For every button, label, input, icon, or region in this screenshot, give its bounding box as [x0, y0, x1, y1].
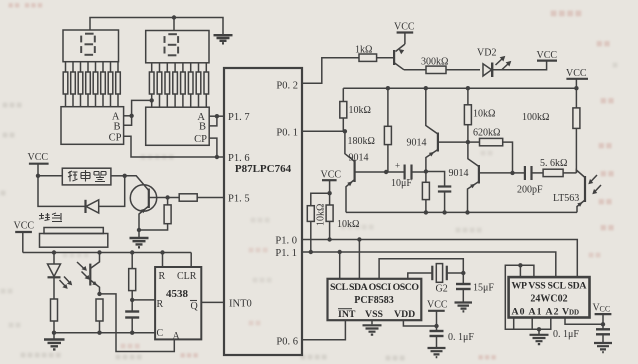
VCC supply of I2C pullups: [321, 170, 342, 194]
svg-text:WP VSS SCL SDA: WP VSS SCL SDA: [512, 281, 587, 292]
wire: U6 WP tied to ground wrap: [519, 265, 521, 277]
node: Q3 base / R7 / C5: [510, 171, 514, 175]
LED VD2: [483, 56, 511, 77]
wire: PT1 emitter to 4538 A input (wraps below): [100, 294, 175, 352]
wire: rail to CLR pin of U4: [190, 253, 192, 268]
capacitor C1 10uF (polarized): [386, 161, 426, 180]
wire: rail to R (top) pin of U4: [162, 253, 164, 268]
wire: relay to Q4 collector node: [111, 175, 125, 177]
svg-text:SCL SDA OSCI OSCO: SCL SDA OSCI OSCO: [330, 282, 419, 293]
svg-text:P1. 7: P1. 7: [228, 112, 250, 123]
wire: U3 pin B tied up to A: [209, 116, 217, 126]
wire: P1.6 net into MCU: [217, 156, 224, 158]
ground under Q4 emitter: [130, 230, 149, 247]
capacitor C8 0.1uF (U5 decoupling): [430, 326, 444, 347]
transistor Q5 (PNP, LED driver): [394, 44, 405, 70]
resistor R7 620kOhm: [468, 138, 513, 173]
node: CP net junction: [215, 155, 219, 159]
wire: Q5 collector to 300k: [404, 69, 426, 71]
node: rail at R14: [130, 250, 134, 254]
svg-text:R: R: [157, 299, 164, 310]
turntable slotted disc (upper plate): [44, 228, 103, 234]
resistor R9 100kOhm (rail to LT563 collector): [573, 88, 580, 173]
svg-text:VCC: VCC: [14, 221, 35, 232]
diode VD1 (flyback, cathode to VCC): [38, 176, 125, 213]
svg-text:9014: 9014: [449, 168, 469, 179]
resistor R2 300kOhm: [426, 66, 446, 73]
svg-text:VSS: VSS: [365, 309, 384, 320]
node: relay / diode / Q4 collector: [123, 174, 127, 178]
node: R14 / C6 / 4538 R pin: [130, 298, 134, 302]
RTC chip U5 PCF8583: [328, 279, 422, 320]
wire: U2 pin A to tie point: [124, 115, 132, 117]
VCC supply of U5: [427, 300, 448, 327]
wire: SDA riser to U5: [358, 240, 360, 279]
node: pullup VCC tie: [327, 191, 331, 195]
wire: P0.1 to node: [302, 130, 345, 132]
svg-text:CLR: CLR: [177, 271, 197, 282]
VCC supply of analog rail: [566, 68, 588, 88]
wire: OSCO riser to crystal left side: [408, 273, 433, 279]
node: ground rail at LED resistor: [52, 331, 56, 335]
node: R15 on SCL line: [309, 250, 313, 254]
node: Q2 base / R4 / R7 / Q3 collector: [466, 140, 470, 144]
wire: P0.2 to 1k resistor: [302, 58, 359, 83]
node: rail at C4: [442, 210, 446, 214]
wire: analog ground rail (Q1 emitter to LT563 emitter): [346, 211, 577, 213]
wire: U6 VDD to VCC node: [565, 318, 603, 325]
capacitor C9 0.1uF (U6 decoupling): [596, 324, 610, 342]
resistor R13 (PT1 emitter load): [96, 299, 103, 333]
wire: top common rail of displays to ground: [90, 18, 223, 35]
wire: OSCI riser and link to crystal right side: [379, 259, 463, 279]
svg-text:B: B: [113, 121, 120, 132]
ground under C7: [455, 303, 473, 312]
node: WP on wrap wire: [518, 263, 522, 267]
svg-text:R: R: [159, 271, 166, 282]
svg-text:10kΩ: 10kΩ: [316, 204, 327, 226]
node: P0.1 / R3 / Q1 collector: [343, 129, 347, 133]
wire: U6 VSS riser joining wrap: [505, 265, 534, 329]
VCC supply of relay branch: [28, 152, 49, 176]
node: rail at phototransistor: [97, 250, 101, 254]
LED VD3 (emitter of opto pair): [48, 253, 73, 300]
svg-text:+: +: [395, 161, 400, 171]
svg-text:P1. 0: P1. 0: [275, 236, 297, 247]
svg-text:VD2: VD2: [477, 48, 496, 59]
node: rail at LED: [52, 250, 56, 254]
svg-text:10kΩ: 10kΩ: [349, 105, 371, 116]
pin label Qbar of U4: [190, 301, 199, 313]
resistor R3 10kOhm (from rail to P0.1 node): [340, 88, 347, 131]
svg-text:VCC: VCC: [321, 170, 342, 181]
svg-text:10μF: 10μF: [391, 178, 412, 189]
svg-text:VDD: VDD: [394, 309, 415, 320]
wire: display DS2 top riser: [173, 18, 175, 31]
svg-text:VCC: VCC: [566, 68, 587, 79]
svg-text:100kΩ: 100kΩ: [522, 112, 549, 123]
resistor R6 (node A to analog ground rail): [422, 172, 429, 213]
wire: U5 INTbar to MCU P0.6: [302, 320, 345, 340]
node: crystal / C7 / OSCI: [461, 271, 465, 275]
svg-text:P1. 5: P1. 5: [228, 194, 250, 205]
svg-text:VCC: VCC: [537, 50, 558, 61]
capacitor C6 (timing): [125, 300, 139, 333]
svg-text:9014: 9014: [349, 153, 369, 164]
wire: P1.0 SDA bus line: [302, 240, 577, 278]
node: ground rail at C6: [130, 331, 134, 335]
node: ground rail at R13: [97, 331, 101, 335]
pin row label INT VSS VDD of U5: [338, 309, 415, 320]
svg-text:CC: CC: [600, 305, 611, 314]
wire: U3 pin CP down to P1.6 net: [209, 138, 217, 157]
svg-text:A: A: [173, 331, 181, 342]
svg-text:DD: DD: [569, 309, 579, 317]
crystal G2: [432, 264, 463, 283]
svg-text:CP: CP: [194, 134, 207, 145]
node: rail at VCC: [574, 86, 578, 90]
resistor R4 10kOhm (rail to Q2 base node): [464, 88, 471, 142]
phototransistor LT563 (IR receiver): [576, 170, 601, 212]
7-segment display DS2: [146, 31, 209, 63]
turntable slotted disc (lower plate): [40, 234, 108, 248]
wire: VCC rail of opto section: [23, 252, 191, 254]
svg-text:180kΩ: 180kΩ: [348, 136, 375, 147]
transistor Q1 9014: [345, 131, 386, 212]
capacitor C7 15uF: [456, 273, 471, 302]
transistor Q3 9014: [468, 142, 513, 212]
wire: U5 VSS to ground: [371, 320, 373, 324]
label text of turntable (Chinese: zhuanpan): [39, 213, 62, 222]
svg-text:15μF: 15μF: [473, 283, 494, 294]
node: Q4 emitter / R11: [137, 228, 141, 232]
VCC supply right of VD2: [537, 50, 558, 61]
node: cascade joins DS2 segment lead: [150, 98, 154, 102]
node: U3 A/B tie on P1.7 wire: [215, 114, 219, 118]
svg-text:4538: 4538: [166, 288, 189, 300]
ground (stepped symbol, top): [214, 35, 233, 43]
svg-text:5. 6kΩ: 5. 6kΩ: [540, 158, 567, 169]
VCC supply of Q5: [394, 22, 415, 45]
shift-register driver U2 (left): [61, 107, 124, 145]
resistor R10 (base series to P1.5): [168, 194, 224, 201]
wire: U4 Qbar to MCU INT0: [201, 301, 224, 303]
svg-text:VCC: VCC: [394, 22, 415, 33]
svg-text:P0. 1: P0. 1: [276, 128, 298, 139]
svg-text:200pF: 200pF: [517, 185, 543, 196]
svg-text:P0. 6: P0. 6: [276, 337, 298, 348]
svg-text:Q: Q: [191, 301, 199, 312]
node: SCL drop to PCF8583: [338, 250, 342, 254]
svg-text:C: C: [157, 328, 164, 339]
node: PT1 emitter / R13 / trigger wire: [97, 292, 101, 296]
node: U2 A/B tie: [129, 114, 133, 118]
node: rail at Q3 emitter: [465, 210, 469, 214]
wire: opto ground rail to 4538 C pin: [54, 332, 155, 334]
resistor R16 10kOhm (SDA pullup): [326, 193, 333, 239]
faint bleed-through text (decorative): [8, 0, 44, 10]
op-amp ... microcontroller U1 P87LPC764: [224, 68, 302, 355]
wire: U2 pin CP down to P1.6 net: [124, 136, 217, 157]
node: rail at 4538 R input riser: [160, 250, 164, 254]
node: rail at 10k R4: [466, 86, 470, 90]
wire: cascade from U2 A/B up to DS2 first segment line: [132, 100, 152, 115]
EEPROM chip U6 24WC02: [509, 277, 590, 317]
svg-text:1kΩ: 1kΩ: [355, 45, 372, 56]
VCC supply of opto branch: [14, 221, 35, 253]
svg-text:INT0: INT0: [229, 299, 252, 310]
svg-text:B: B: [199, 122, 206, 133]
resistor R11 (base pulldown): [139, 198, 171, 231]
ground under U6 address pins: [530, 329, 549, 344]
node: rail at Q2 collector: [424, 86, 428, 90]
svg-text:G2: G2: [436, 284, 448, 295]
svg-text:VCC: VCC: [427, 300, 448, 311]
capacitor C4 (node A branch to analog ground rail): [426, 172, 451, 213]
wire: R1 to Q5 base: [377, 57, 395, 59]
svg-text:0. 1μF: 0. 1μF: [553, 329, 579, 340]
transistor Q2 9014: [426, 88, 468, 171]
node A: Q2 emitter / C1 / R6: [424, 169, 428, 173]
relay K1 (box labelled jidianqi): [38, 168, 111, 185]
ground under C8: [428, 348, 446, 357]
svg-text:0. 1μF: 0. 1μF: [448, 332, 474, 343]
resistor R12 (LED series): [51, 299, 58, 333]
svg-text:10kΩ: 10kΩ: [473, 109, 495, 120]
svg-text:24WC02: 24WC02: [530, 294, 567, 305]
node: SDA drop to PCF8583: [357, 237, 361, 241]
wire: U3 pin A to MCU P1.7: [209, 115, 224, 117]
resistor R5 180kOhm (rail to Q1 base): [384, 88, 391, 171]
resistor R1 1kOhm: [359, 54, 377, 61]
wire: P1.1 SCL bus line: [302, 252, 556, 277]
svg-text:10kΩ: 10kΩ: [337, 219, 359, 230]
svg-text:VCC: VCC: [28, 152, 49, 163]
capacitor C5 200pF: [513, 166, 544, 180]
wire: R2 to VD2: [446, 69, 480, 71]
monostable U4 4538: [155, 267, 201, 339]
node: rail at 180k: [386, 86, 390, 90]
node: rail at R6: [424, 210, 428, 214]
svg-text:PCF8583: PCF8583: [354, 295, 393, 306]
svg-text:A0 A1 A2: A0 A1 A2: [512, 307, 559, 318]
wire: U6 A0 A1 A2 commoned to ground: [514, 318, 551, 330]
wire: VCC rail of analog section: [343, 87, 577, 89]
resistor R15 10kOhm (SCL pullup): [307, 193, 329, 252]
resistor R14 (timing, rail to R/C node): [129, 253, 136, 300]
digit 8 of DS1 (segments): [81, 34, 95, 55]
node: Q4 base / R10 / R11: [165, 195, 169, 199]
node: address pin common: [537, 327, 541, 331]
node: U5 VDD / VCC / C8: [434, 324, 438, 328]
svg-text:CP: CP: [109, 132, 122, 143]
node: U6 VDD / VCC / C9: [601, 322, 605, 326]
svg-text:P0. 2: P0. 2: [276, 81, 298, 92]
wire: U5 VDD to VCC node: [403, 320, 436, 326]
transistor Q4 (relay driver, with envelope circle): [125, 176, 168, 230]
wire: node to 4538 R (mid-left) pin: [132, 299, 155, 301]
wire: R8 to 100k / LT563 node: [563, 172, 576, 174]
svg-text:P87LPC764: P87LPC764: [235, 163, 292, 175]
VCC supply of U6: [593, 303, 612, 325]
7-segment display DS1: [63, 30, 119, 62]
node: Q1 base / R5 / C1: [384, 170, 388, 174]
ground of opto rail: [44, 333, 65, 350]
svg-text:620kΩ: 620kΩ: [473, 128, 500, 139]
svg-text:INT: INT: [338, 309, 356, 320]
label text of relay (Chinese: relay): [68, 170, 106, 182]
wire: SCL riser to U5: [339, 252, 341, 279]
ground under U5 VSS: [363, 325, 382, 334]
node: junction on top rail at DS2 riser: [172, 15, 176, 19]
segment resistor network RN1 (8 resistors under DS1): [63, 62, 120, 107]
shift-register driver U3 (right): [146, 107, 210, 145]
resistor R8 5.6kOhm: [543, 169, 563, 176]
wire: VD2 cathode to VCC: [492, 61, 547, 70]
phototransistor PT1 (opto receiver): [77, 253, 100, 294]
wire: U2 pin B tied up to A: [124, 116, 132, 126]
svg-text:P1. 6: P1. 6: [228, 153, 250, 164]
svg-text:P1. 1: P1. 1: [275, 248, 297, 259]
ground under C9: [594, 343, 612, 352]
segment resistor network RN2 (8 resistors under DS2): [149, 63, 208, 107]
svg-text:300kΩ: 300kΩ: [421, 57, 448, 68]
digit 8 of DS2 (segments): [165, 34, 179, 55]
node: VCC / relay / diode: [36, 174, 40, 178]
svg-text:LT563: LT563: [553, 193, 579, 204]
svg-text:9014: 9014: [407, 138, 427, 149]
node: R16 on SDA line: [327, 237, 331, 241]
